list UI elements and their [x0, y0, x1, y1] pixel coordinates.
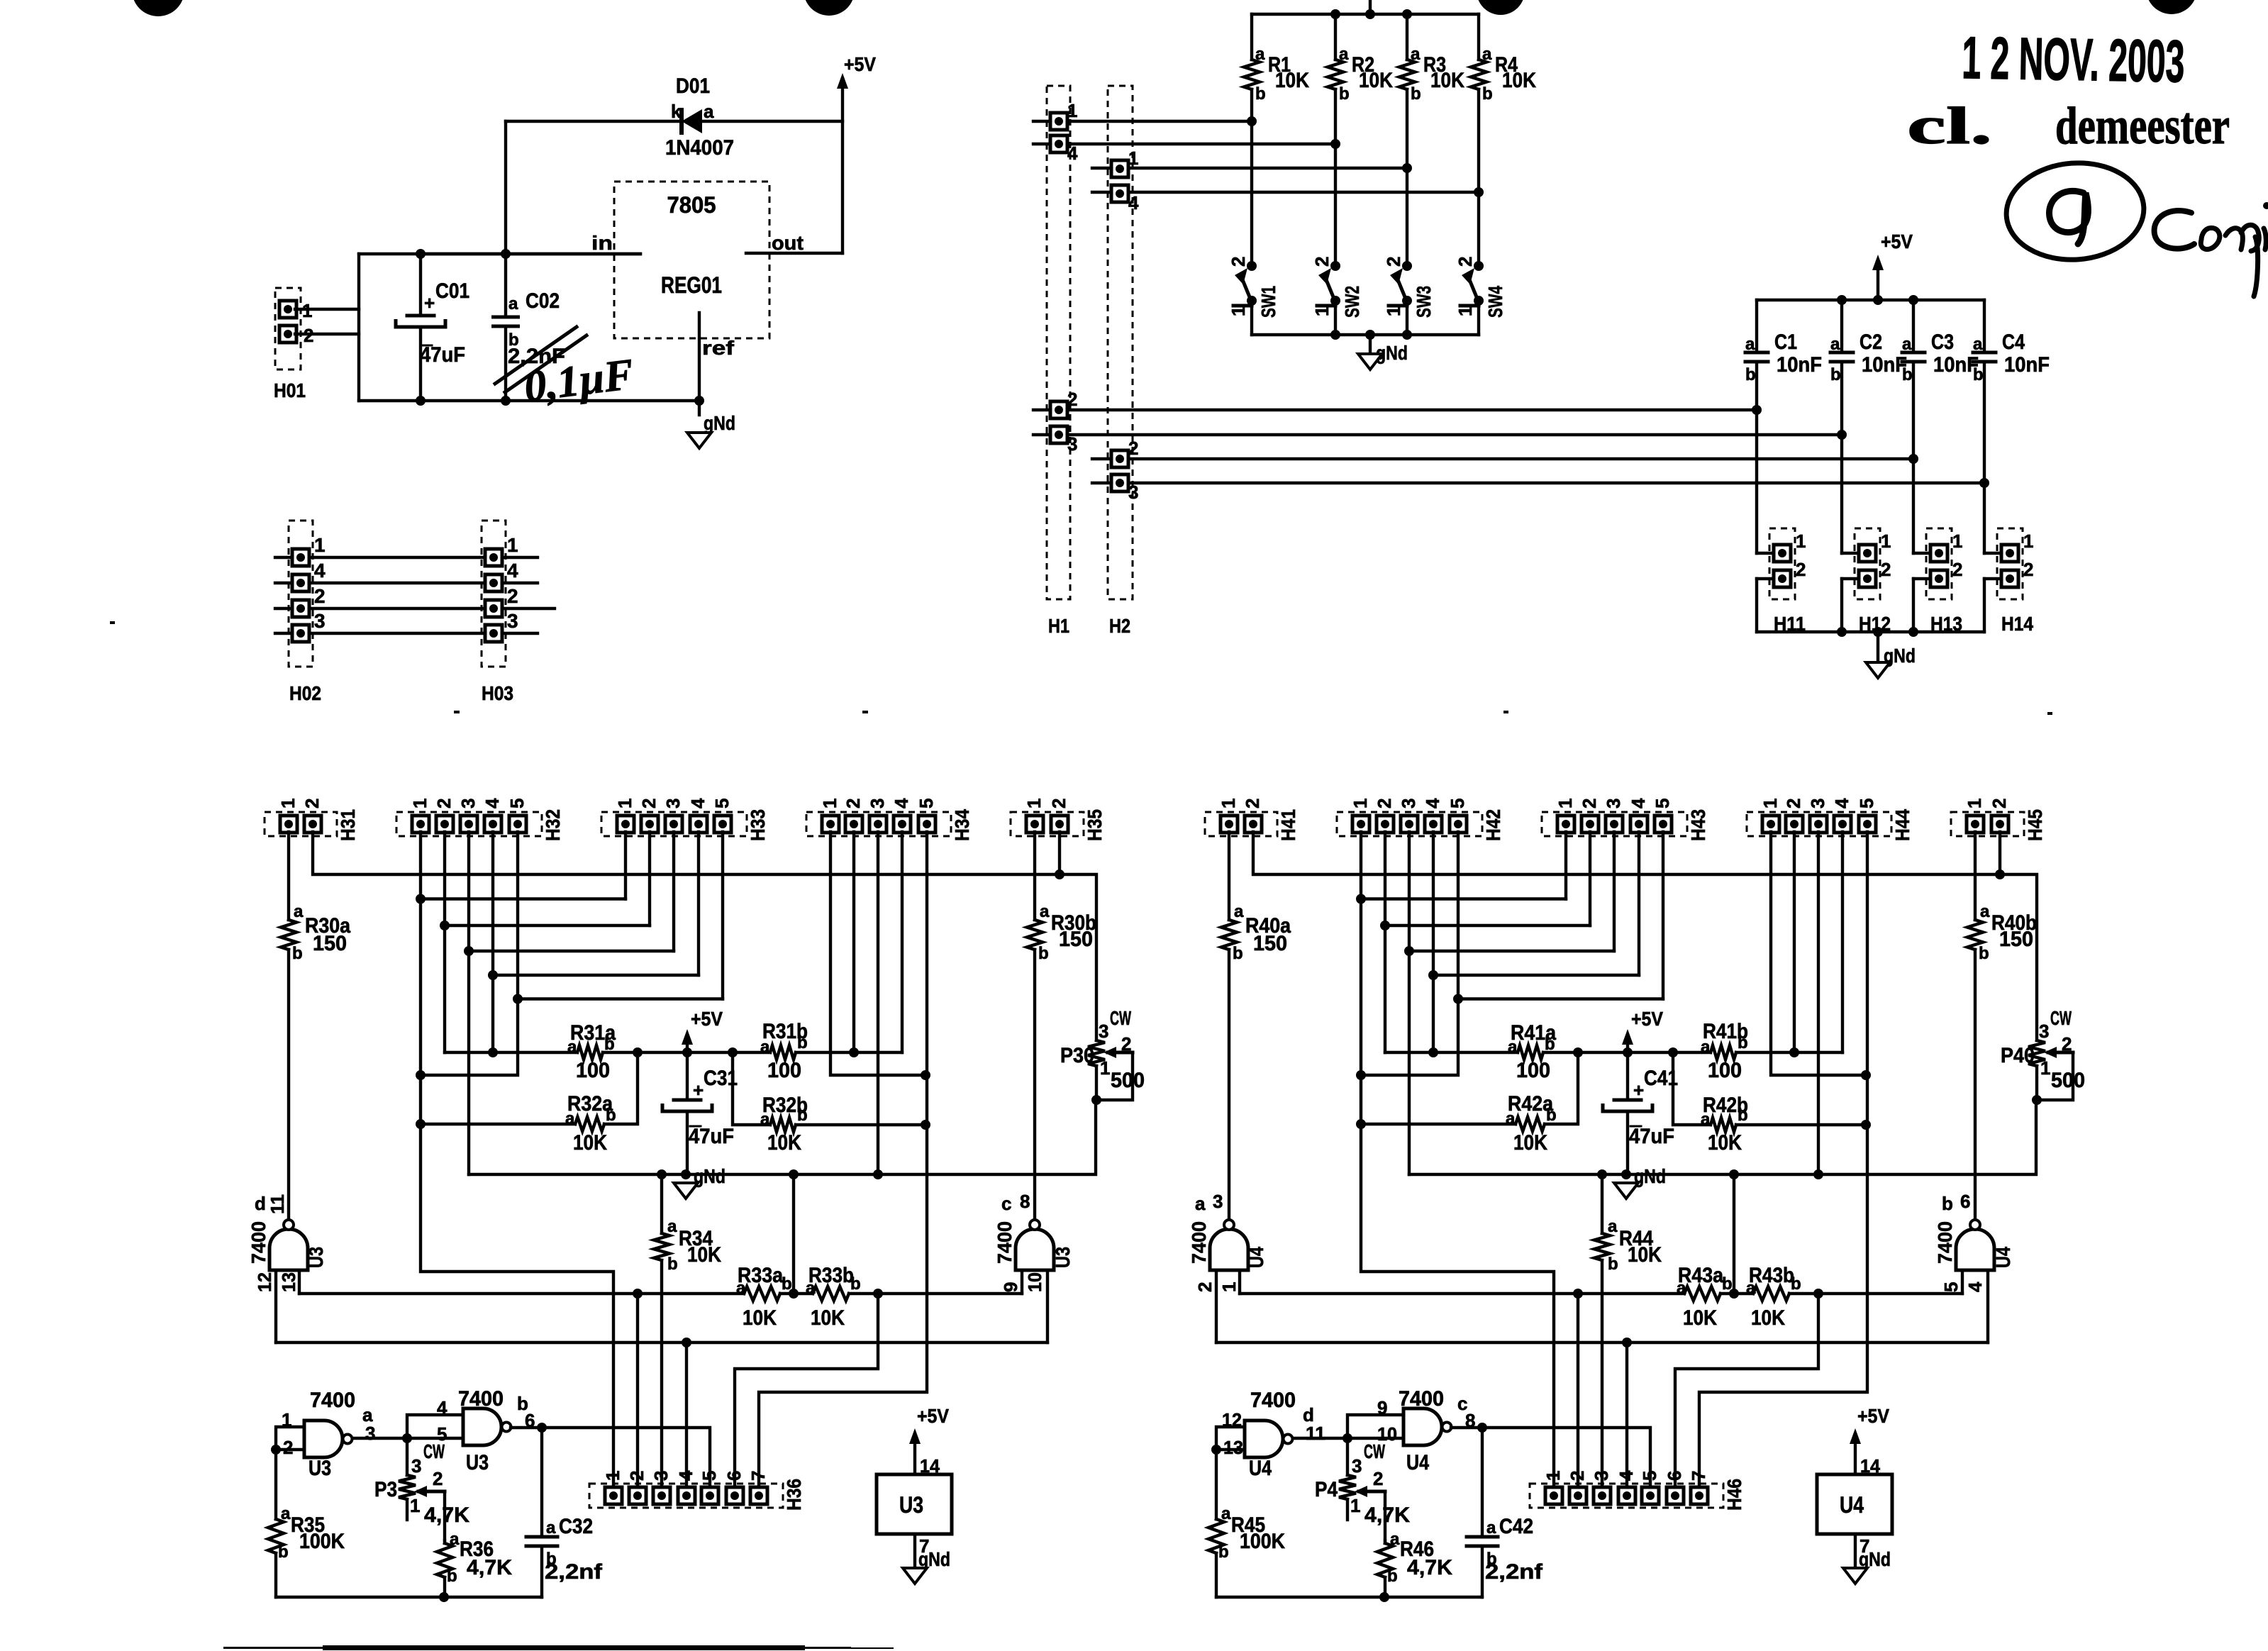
svg-text:1: 1: [1964, 799, 1985, 808]
wire H42.5 / H43.5 link: [1457, 832, 1460, 999]
connector H13 dashed outline: [1926, 528, 1952, 599]
wire oscillator row (pin 13 net): [299, 1292, 744, 1295]
svg-text:3: 3: [867, 799, 888, 808]
svg-text:1: 1: [1350, 1495, 1360, 1516]
svg-text:10K: 10K: [1502, 69, 1536, 92]
svg-text:SW2: SW2: [1341, 286, 1363, 318]
capacitor C32 2,2nf: [540, 1428, 543, 1537]
wire H32.3 / H33.3 link: [467, 832, 470, 951]
svg-text:7400: 7400: [1934, 1221, 1956, 1264]
svg-text:3: 3: [1067, 433, 1077, 455]
svg-text:150: 150: [1253, 932, 1287, 955]
svg-text:+5V: +5V: [1881, 230, 1913, 252]
svg-text:H43: H43: [1687, 809, 1709, 841]
svg-text:a: a: [1980, 902, 1990, 921]
wire H42.1 strap down: [1361, 899, 1554, 1496]
svg-text:H34: H34: [951, 809, 973, 841]
connector H35 dashed outline: [1011, 812, 1084, 836]
H46 pin 7 pad: [1691, 1487, 1708, 1504]
wire H42.4 / H43.4 link: [1432, 832, 1435, 975]
svg-text:7400: 7400: [248, 1221, 269, 1264]
H03 pin 2 pad: [485, 600, 502, 617]
wire bottom rail to C32: [1482, 1596, 1482, 1599]
svg-text:6: 6: [1664, 1471, 1685, 1481]
svg-text:2: 2: [1242, 799, 1263, 808]
svg-text:10K: 10K: [1513, 1131, 1547, 1155]
wire H2.3 long: [1092, 482, 1984, 484]
wire H44.3: [1817, 832, 1820, 1174]
+5V arrow U3 power: [913, 1438, 916, 1474]
H46 pin 3 pad: [1594, 1487, 1611, 1504]
wire H01.2 to input node: [295, 333, 359, 335]
svg-text:11: 11: [267, 1194, 288, 1214]
H42 pin 3 pad: [1401, 816, 1418, 833]
svg-text:10K: 10K: [573, 1131, 607, 1155]
wire gnd row: [469, 1100, 1096, 1174]
H41 pin 1 pad: [1221, 816, 1238, 833]
svg-text:5: 5: [1856, 799, 1877, 808]
svg-text:a: a: [1701, 1038, 1711, 1057]
svg-text:a: a: [760, 1038, 770, 1057]
svg-text:d: d: [255, 1193, 266, 1214]
potentiometer P4 4,7K: [1346, 1438, 1349, 1475]
svg-text:+5V: +5V: [917, 1405, 949, 1427]
junction rail R3: [1402, 9, 1412, 19]
svg-text:b: b: [1973, 365, 1984, 384]
svg-text:10K: 10K: [743, 1306, 777, 1330]
H02 pin 4 pad: [292, 574, 309, 591]
junction R4/header wire: [1474, 187, 1484, 197]
svg-text:2: 2: [1121, 1033, 1131, 1055]
svg-text:10nF: 10nF: [1777, 353, 1822, 377]
svg-text:4: 4: [675, 1470, 696, 1481]
H36 pin 4 pad: [678, 1487, 695, 1504]
svg-text:5: 5: [916, 799, 937, 808]
junction strap row: [416, 1070, 426, 1080]
svg-text:b: b: [1979, 944, 1989, 963]
capacitor C41 47uF: [1626, 1052, 1629, 1100]
wire oscillator row (pin 1 net): [1240, 1292, 1684, 1295]
scanner bar bottom: [223, 1647, 851, 1649]
svg-text:b: b: [447, 1567, 457, 1586]
svg-text:b: b: [1218, 1542, 1229, 1562]
wire H42.2 / H43.2 link: [1384, 832, 1386, 925]
H44 pin 5 pad: [1859, 816, 1876, 833]
connector H32 dashed outline: [396, 812, 542, 836]
wire gate b pin 4: [1986, 1270, 1989, 1343]
svg-text:9: 9: [1000, 1282, 1021, 1292]
wire H44.4: [1841, 832, 1844, 1052]
svg-text:3: 3: [2039, 1021, 2049, 1042]
H42 pin 4 pad: [1425, 816, 1442, 833]
svg-text:10K: 10K: [1275, 69, 1309, 92]
H14 pin 2 pad: [2001, 570, 2018, 587]
svg-text:a: a: [1195, 1193, 1206, 1214]
resistor R32a 10K: [575, 1117, 604, 1131]
svg-text:4,7K: 4,7K: [1407, 1556, 1452, 1579]
wire top rail to 7805 in: [359, 252, 640, 255]
H46 pin 6 pad: [1667, 1487, 1684, 1504]
speck: [2047, 712, 2052, 715]
+5V arrow C41 node: [1626, 1039, 1629, 1052]
connector H36 dashed outline: [589, 1484, 783, 1508]
svg-text:D01: D01: [676, 74, 710, 98]
wire pin 12/10 row: [276, 1341, 1047, 1344]
svg-text:1: 1: [602, 1471, 623, 1481]
svg-text:b: b: [850, 1274, 861, 1294]
speck: [862, 711, 868, 713]
wire gate b pin 4 jog: [407, 1415, 463, 1438]
wire H31.1 down to R30a: [287, 832, 290, 920]
svg-text:demeester: demeester: [2055, 97, 2230, 155]
wire H34.2: [852, 832, 855, 1052]
resistor R30a 150: [281, 920, 296, 950]
svg-text:2: 2: [301, 799, 323, 808]
wire gate a input bracket: [276, 1427, 304, 1450]
H01 pin 2 pad: [279, 326, 296, 343]
svg-text:1: 1: [277, 799, 299, 808]
svg-text:H1: H1: [1048, 615, 1069, 637]
wire cap gnd rail: [1757, 630, 1984, 633]
H41 pin 2 pad: [1245, 816, 1262, 833]
svg-text:a: a: [736, 1279, 746, 1298]
wire H32.2 / H33.2 link: [443, 832, 446, 925]
svg-text:P3: P3: [374, 1478, 397, 1501]
svg-text:H02: H02: [289, 682, 321, 704]
svg-text:4,7K: 4,7K: [467, 1556, 512, 1579]
wire H32.2 to R31 row: [443, 925, 446, 1052]
wire out pin: [746, 252, 843, 255]
svg-text:1: 1: [507, 534, 518, 556]
svg-text:7805: 7805: [667, 192, 716, 218]
speck: [1503, 711, 1508, 713]
nand gate U3 b (7400): [463, 1408, 501, 1445]
svg-text:10K: 10K: [1751, 1306, 1785, 1330]
nand gate U4 a (7400): [1210, 1229, 1248, 1270]
svg-text:7400: 7400: [310, 1389, 355, 1412]
H45 pin 2 pad: [1991, 816, 2008, 833]
resistor R4 10K: [1477, 14, 1480, 60]
svg-text:b: b: [1233, 944, 1243, 963]
svg-text:5: 5: [506, 799, 528, 808]
svg-text:C42: C42: [1499, 1515, 1533, 1538]
svg-text:a: a: [1608, 1217, 1618, 1236]
wire R42b row: [1673, 1052, 1711, 1125]
regulator REG01 7805 dashed box: [614, 182, 769, 338]
svg-text:10K: 10K: [1359, 69, 1393, 92]
wire H31.2 to P30 CW: [313, 832, 1096, 1040]
svg-text:b: b: [1255, 84, 1266, 104]
junction ref/gnd: [694, 396, 704, 406]
svg-text:b: b: [1339, 84, 1350, 104]
svg-text:H32: H32: [542, 809, 564, 841]
H33 pin 5 pad: [714, 816, 731, 833]
svg-text:47uF: 47uF: [689, 1125, 734, 1148]
potentiometer P40 500: [2028, 1040, 2045, 1066]
svg-text:R43b: R43b: [1749, 1264, 1794, 1287]
H32 pin 2 pad: [436, 816, 453, 833]
H46 pin 5 pad: [1642, 1487, 1659, 1504]
connector H14 dashed outline: [1997, 528, 2023, 599]
svg-text:1: 1: [1455, 306, 1476, 316]
capacitor C4 10nF: [1983, 300, 1986, 352]
svg-text:1: 1: [1128, 148, 1138, 169]
resistor R32b 10K: [770, 1118, 796, 1132]
resistor R41b 100: [1711, 1045, 1736, 1060]
resistor R44 10K: [1601, 1174, 1603, 1233]
H44 pin 3 pad: [1810, 816, 1827, 833]
junction R42a row: [1356, 1119, 1366, 1129]
connector H11 dashed outline: [1769, 528, 1795, 599]
wire gnd stem: [1369, 335, 1372, 354]
svg-text:13: 13: [1223, 1437, 1243, 1458]
wire H42.3 / H43.3 link: [1408, 832, 1411, 951]
svg-text:H14: H14: [2001, 613, 2033, 635]
svg-text:a: a: [760, 1110, 770, 1129]
svg-text:3: 3: [411, 1455, 421, 1477]
svg-text:1: 1: [2040, 1057, 2050, 1079]
svg-text:+5V: +5V: [1631, 1008, 1663, 1030]
wire C2 to H12 pin1: [1840, 435, 1843, 553]
svg-text:2: 2: [1373, 1468, 1383, 1489]
punch hole 2: [804, 0, 855, 16]
svg-text:C32: C32: [559, 1515, 593, 1538]
svg-text:+5V: +5V: [1857, 1405, 1889, 1427]
svg-text:10nF: 10nF: [1862, 353, 1907, 377]
junction C02 top: [501, 249, 511, 259]
svg-text:a: a: [1701, 1110, 1711, 1129]
H46 pin 2 pad: [1569, 1487, 1586, 1504]
junction R32a row: [416, 1119, 426, 1129]
svg-text:10K: 10K: [687, 1243, 721, 1267]
H2 pin 1 pad: [1111, 160, 1128, 177]
svg-text:+: +: [1633, 1079, 1644, 1101]
svg-text:SW3: SW3: [1413, 286, 1435, 318]
wire C4 to H14 pin1: [1983, 483, 1986, 553]
svg-text:4: 4: [1422, 798, 1443, 808]
strike-through lines: [495, 327, 577, 384]
wire H14 pin2 to gnd rail: [1984, 577, 2010, 580]
svg-text:3: 3: [1807, 799, 1828, 808]
H43 pin 2 pad: [1582, 816, 1599, 833]
svg-text:2: 2: [2062, 1033, 2072, 1055]
wire C1 to H11 pin1: [1755, 410, 1758, 553]
wire H02.1-H03.1: [275, 556, 538, 559]
svg-text:3: 3: [1128, 482, 1138, 503]
connector H31 dashed outline: [265, 812, 337, 836]
wire gate c output: [1451, 1428, 1650, 1496]
svg-text:10K: 10K: [1430, 69, 1464, 92]
svg-text:b: b: [1387, 1567, 1398, 1586]
connector H45 dashed outline: [1951, 812, 2024, 836]
svg-text:4: 4: [1831, 798, 1852, 808]
H44 pin 1 pad: [1762, 816, 1779, 833]
nand gate U4 b (7400): [1956, 1229, 1994, 1270]
svg-text:a: a: [567, 1038, 577, 1057]
svg-text:1: 1: [1542, 1471, 1564, 1481]
svg-text:5: 5: [1940, 1282, 1962, 1292]
wire gate d output to gate c: [1293, 1437, 1403, 1440]
resistor R46 4,7K: [1384, 1540, 1386, 1543]
resistor R43a 10K: [1684, 1286, 1721, 1301]
wire gate c pin 10: [1046, 1270, 1049, 1343]
connector H01 dashed outline: [275, 288, 301, 369]
wire H36.4 riser: [685, 1343, 688, 1496]
svg-text:H35: H35: [1084, 809, 1106, 841]
H03 pin 1 pad: [485, 549, 502, 566]
svg-text:a: a: [1390, 1530, 1400, 1549]
H31 pin 1 pad: [280, 816, 297, 833]
svg-text:1: 1: [1228, 306, 1249, 316]
svg-text:b: b: [1745, 365, 1756, 384]
wire H35.1 to R30b: [1033, 832, 1036, 920]
H35 pin 1 pad: [1026, 816, 1043, 833]
wire H32.3 to gnd row: [467, 951, 470, 1174]
svg-text:5: 5: [711, 799, 733, 808]
svg-text:1: 1: [1100, 1057, 1110, 1079]
H13 pin 1 pad: [1930, 545, 1947, 562]
connector H34 dashed outline: [806, 812, 951, 836]
wire gate c pin 9 jog: [1347, 1415, 1403, 1438]
connector H02 dashed outline: [289, 521, 313, 667]
punch hole 1: [132, 0, 184, 16]
H46 pin 1 pad: [1545, 1487, 1562, 1504]
svg-text:10: 10: [1024, 1272, 1045, 1292]
wire U4 pin 7 to gnd: [1854, 1534, 1857, 1568]
svg-text:7400: 7400: [458, 1387, 504, 1411]
wire H2.2 long: [1092, 457, 1913, 460]
wire H32.1 / H33.1 link: [419, 832, 422, 899]
svg-text:10nF: 10nF: [2004, 353, 2050, 377]
svg-text:C4: C4: [2002, 330, 2025, 354]
svg-text:a: a: [1902, 335, 1912, 354]
svg-text:3: 3: [1213, 1191, 1223, 1212]
capacitor C01 (47uF electrolytic): [419, 254, 422, 316]
H01 pin 1 pad: [279, 301, 296, 318]
+5V arrow PSU: [841, 83, 844, 253]
svg-text:12: 12: [254, 1272, 275, 1292]
svg-text:+: +: [693, 1079, 704, 1101]
svg-text:k: k: [671, 101, 682, 122]
H34 pin 1 pad: [822, 816, 839, 833]
svg-text:b: b: [1738, 1106, 1748, 1125]
IC U3 power box: [877, 1474, 952, 1534]
svg-text:4,7K: 4,7K: [1364, 1503, 1410, 1527]
speck: [454, 711, 460, 713]
wire H2.1 to R3: [1092, 167, 1407, 169]
H31 pin 2 pad: [304, 816, 321, 833]
svg-text:1N4007: 1N4007: [665, 136, 734, 160]
svg-text:4,7K: 4,7K: [424, 1503, 469, 1527]
H2 pin 3 pad: [1111, 474, 1128, 491]
svg-text:7: 7: [747, 1471, 769, 1481]
svg-text:a: a: [1234, 902, 1244, 921]
svg-text:CW: CW: [1110, 1007, 1131, 1029]
svg-text:100: 100: [1708, 1059, 1742, 1082]
svg-text:5: 5: [1652, 799, 1673, 808]
svg-text:3: 3: [650, 1471, 672, 1481]
speck: [110, 621, 115, 624]
H13 pin 2 pad: [1930, 570, 1947, 587]
wire H02.4-H03.4: [275, 582, 538, 584]
svg-text:gNd: gNd: [704, 412, 735, 434]
resistor R42b 10K: [1711, 1118, 1736, 1132]
H1 pin 3 pad: [1050, 426, 1067, 443]
junction C3/long wire: [1908, 454, 1918, 464]
switch SW4: [1474, 261, 1484, 271]
junction strap row: [1356, 1070, 1366, 1080]
wire H32.1 strap down: [421, 899, 613, 1496]
svg-text:4: 4: [891, 798, 912, 808]
H44 pin 2 pad: [1786, 816, 1803, 833]
punch hole 3: [1477, 0, 1525, 15]
nand gate U3 d (7400): [269, 1229, 308, 1270]
capacitor C3 10nF: [1912, 300, 1915, 352]
connector H1 dashed outline: [1047, 86, 1070, 599]
H35 pin 2 pad: [1051, 816, 1068, 833]
svg-text:3: 3: [1352, 1455, 1362, 1477]
wire gate a pin 1: [1238, 1270, 1241, 1294]
H03 pin 4 pad: [485, 574, 502, 591]
junction rail center: [1365, 9, 1375, 19]
svg-text:3: 3: [457, 799, 479, 808]
wire H02.2-H03.2: [275, 607, 555, 610]
svg-text:2: 2: [1228, 257, 1249, 267]
wire bottom rail to C32: [541, 1596, 542, 1599]
svg-text:100: 100: [767, 1059, 801, 1082]
svg-text:1: 1: [1383, 306, 1404, 316]
connector H42 dashed outline: [1337, 812, 1482, 836]
wire H44.2: [1793, 832, 1796, 1052]
H2 pin 4 pad: [1111, 185, 1128, 202]
svg-text:2: 2: [626, 1471, 647, 1481]
svg-text:a: a: [1506, 1109, 1516, 1128]
H34 pin 2 pad: [845, 816, 862, 833]
H36 pin 2 pad: [629, 1487, 646, 1504]
svg-text:150: 150: [1059, 928, 1093, 951]
svg-text:2: 2: [2023, 559, 2033, 580]
wire row A to H46.6: [1675, 1294, 1818, 1496]
svg-text:b: b: [278, 1542, 289, 1562]
nand gate U4 d (7400): [1245, 1421, 1283, 1457]
svg-text:CW: CW: [2050, 1007, 2072, 1029]
svg-text:U3: U3: [305, 1247, 327, 1268]
svg-text:2: 2: [1374, 799, 1395, 808]
wire H36.2 riser: [636, 1294, 639, 1496]
svg-text:a: a: [508, 294, 518, 313]
wire H41.1 down to R40a: [1228, 832, 1230, 920]
svg-text:b: b: [604, 1035, 615, 1054]
svg-text:a: a: [1339, 45, 1349, 64]
H32 pin 5 pad: [509, 816, 526, 833]
H43 pin 3 pad: [1606, 816, 1623, 833]
resistor R3 10K: [1406, 14, 1408, 60]
svg-text:cl.: cl.: [1907, 97, 1992, 155]
resistor R30b 150: [1027, 920, 1043, 950]
svg-text:4: 4: [507, 560, 518, 582]
H43 pin 4 pad: [1630, 816, 1647, 833]
svg-text:H45: H45: [2024, 809, 2046, 841]
wire input vertical: [357, 254, 360, 401]
svg-text:10K: 10K: [811, 1306, 845, 1330]
wire H02.3-H03.3: [275, 632, 538, 635]
svg-text:H33: H33: [747, 809, 769, 841]
H02 pin 3 pad: [292, 625, 309, 642]
svg-text:4: 4: [687, 798, 708, 808]
svg-text:2: 2: [1383, 257, 1404, 267]
nand gate U3 c (7400): [1016, 1229, 1054, 1270]
svg-text:100: 100: [1516, 1059, 1550, 1082]
